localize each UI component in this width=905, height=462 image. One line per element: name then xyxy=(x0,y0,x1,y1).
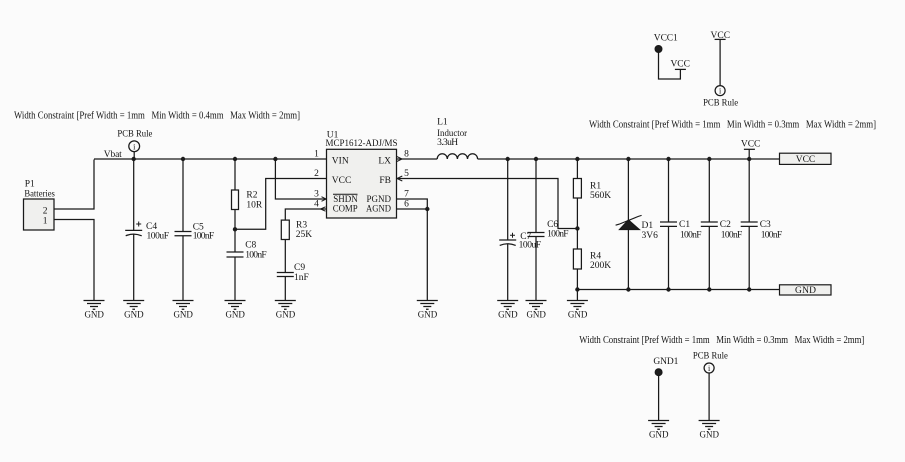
port VCC xyxy=(780,153,832,165)
svg-text:Width Constraint [Pref Width =: Width Constraint [Pref Width = 1mm Min W… xyxy=(589,119,876,130)
svg-text:Batteries: Batteries xyxy=(24,190,55,200)
svg-text:100nF: 100nF xyxy=(245,251,267,261)
ground symbol (C6) xyxy=(526,301,547,320)
capacitor C3 100nF xyxy=(741,220,783,241)
power port VCC (bar, above directive) xyxy=(711,31,731,41)
svg-text:VCC: VCC xyxy=(670,59,690,69)
junction rail/C1 xyxy=(666,157,670,161)
junction bus/C3 xyxy=(747,287,751,291)
port GND xyxy=(780,285,832,296)
svg-text:GND: GND xyxy=(225,310,245,320)
junction Vbat/R2 xyxy=(233,157,237,161)
wire C9 bottom xyxy=(284,277,286,301)
junction Vbat/C5 xyxy=(181,157,185,161)
junction R4/GND bus xyxy=(575,287,579,291)
junction rail/D1 xyxy=(626,157,630,161)
wire VCC bar to directive xyxy=(719,39,721,85)
wire GND1 to ground xyxy=(658,376,660,421)
svg-text:5: 5 xyxy=(404,169,409,179)
svg-text:R2: R2 xyxy=(246,191,257,201)
capacitor C6 100nF xyxy=(528,220,569,240)
svg-text:3V6: 3V6 xyxy=(642,231,659,241)
wire D1 bottom xyxy=(627,230,629,290)
U1 pin 4 number and arrow xyxy=(314,200,325,212)
svg-text:GND: GND xyxy=(173,310,193,320)
svg-text:3: 3 xyxy=(314,190,319,200)
capacitor C7 100uF polarized xyxy=(499,232,541,251)
wire Vbat rail xyxy=(94,158,327,160)
junction rail/C2 xyxy=(707,157,711,161)
wire R1 top xyxy=(576,159,578,179)
svg-text:7: 7 xyxy=(404,190,409,200)
capacitor C1 100nF xyxy=(660,220,702,241)
junction PGND/AGND xyxy=(425,207,429,211)
U1 pin 5 number and arrow xyxy=(397,169,409,181)
ground symbol (R4) xyxy=(567,301,588,320)
wire FB network xyxy=(397,179,578,229)
svg-text:200K: 200K xyxy=(590,261,611,271)
svg-text:PCB Rule: PCB Rule xyxy=(703,99,738,109)
svg-text:GND: GND xyxy=(649,430,669,440)
ground symbol (P1) xyxy=(84,301,105,320)
wire LX to L1 xyxy=(397,158,438,160)
svg-text:VCC: VCC xyxy=(332,176,352,186)
svg-text:C2: C2 xyxy=(720,220,731,230)
wire P1 pin2 to Vbat rail xyxy=(54,160,94,210)
wire C2 top xyxy=(708,159,710,222)
power port GND1 (circle style) xyxy=(653,357,678,376)
svg-text:GND: GND xyxy=(84,310,104,320)
wire C4 bottom xyxy=(133,234,135,300)
wire C5 bottom xyxy=(182,236,184,301)
svg-text:MCP1612-ADJ/MS: MCP1612-ADJ/MS xyxy=(326,139,398,149)
svg-text:100nF: 100nF xyxy=(547,230,569,240)
U1 pin 8 number and arrow xyxy=(397,150,409,162)
junction rail/C6 xyxy=(534,157,538,161)
svg-text:GND1: GND1 xyxy=(653,357,678,367)
wire C7 bottom xyxy=(507,244,509,301)
svg-text:8: 8 xyxy=(404,150,409,160)
svg-text:10R: 10R xyxy=(246,201,263,211)
wire C1 top xyxy=(668,159,670,222)
capacitor C2 100nF xyxy=(701,220,743,241)
svg-text:GND: GND xyxy=(276,310,296,320)
directive PCB Rule (top right) xyxy=(703,86,738,109)
wire C5 top xyxy=(182,159,184,232)
svg-text:100nF: 100nF xyxy=(193,232,215,242)
junction bus/C2 xyxy=(707,287,711,291)
svg-text:C3: C3 xyxy=(760,220,771,230)
wire COMP to R3 xyxy=(285,209,326,220)
svg-text:FB: FB xyxy=(379,176,391,186)
svg-text:PCB Rule: PCB Rule xyxy=(117,130,152,140)
svg-text:LX: LX xyxy=(378,157,391,167)
ground symbol (C4) xyxy=(123,301,144,320)
svg-text:GND: GND xyxy=(526,310,546,320)
ground symbol (C8) xyxy=(225,301,246,320)
svg-text:1nF: 1nF xyxy=(294,273,309,283)
svg-text:GND: GND xyxy=(700,430,720,440)
junction R2/C8/VCC xyxy=(233,227,237,231)
svg-text:L1: L1 xyxy=(437,118,448,128)
wire C6 top xyxy=(535,159,537,233)
svg-text:C4: C4 xyxy=(146,222,157,232)
svg-text:VCC1: VCC1 xyxy=(654,34,678,44)
capacitor C4 100uF polarized xyxy=(125,222,169,242)
capacitor C9 1nF xyxy=(277,263,309,283)
resistor R4 200K xyxy=(573,249,611,271)
junction rail/C3 xyxy=(747,157,751,161)
U1 pin 3 number and arrow xyxy=(314,190,326,202)
svg-text:R1: R1 xyxy=(590,182,601,192)
svg-text:3.3uH: 3.3uH xyxy=(437,138,458,148)
wire VCC1 to VCC bar xyxy=(659,52,681,79)
wire VCC pin feed xyxy=(235,179,327,230)
svg-text:4: 4 xyxy=(314,200,319,210)
resistor R1 560K xyxy=(573,179,611,202)
junction rail/C7 xyxy=(506,157,510,161)
wire PGND xyxy=(397,199,428,209)
svg-text:2: 2 xyxy=(43,207,48,217)
wire C8 bottom xyxy=(234,257,236,301)
svg-text:R4: R4 xyxy=(590,252,601,262)
directive PCB Rule (top left) xyxy=(117,130,152,160)
svg-text:P1: P1 xyxy=(25,180,35,190)
svg-text:GND: GND xyxy=(795,286,816,296)
wire U1 ground drop xyxy=(426,209,428,301)
junction FB divider xyxy=(575,226,579,230)
wire C3 bottom xyxy=(748,226,750,289)
svg-text:GND: GND xyxy=(568,310,588,320)
wire C3 top xyxy=(748,159,750,222)
capacitor C5 100nF xyxy=(175,223,215,242)
svg-text:2: 2 xyxy=(314,169,319,179)
svg-text:VCC: VCC xyxy=(741,140,761,150)
wire C7 top xyxy=(507,159,509,240)
wire C4 top xyxy=(133,159,135,230)
svg-text:GND: GND xyxy=(418,310,438,320)
wire C6 bottom xyxy=(535,237,537,301)
ground symbol (C5) xyxy=(173,301,194,320)
connector P1 Batteries xyxy=(24,180,56,231)
svg-text:PCB Rule: PCB Rule xyxy=(693,352,728,362)
wire R3 to C9 xyxy=(284,240,286,273)
capacitor C8 100nF xyxy=(227,241,267,261)
IC U1 MCP1612-ADJ/MS body xyxy=(326,131,398,219)
wire C2 bottom xyxy=(708,226,710,289)
svg-text:C8: C8 xyxy=(245,241,256,251)
svg-text:100nF: 100nF xyxy=(761,231,783,241)
wire R4 bottom to GND xyxy=(576,269,578,301)
wire R1 to R4 xyxy=(576,198,578,249)
svg-text:COMP: COMP xyxy=(333,205,358,215)
ground symbol (C7) xyxy=(497,301,518,320)
wire R2 bottom to C8 xyxy=(234,210,236,253)
svg-text:VCC: VCC xyxy=(796,155,816,165)
ground symbol (U1) xyxy=(417,301,438,320)
svg-text:C6: C6 xyxy=(547,220,558,230)
wire GND bus xyxy=(577,289,779,291)
svg-text:GND: GND xyxy=(124,310,144,320)
junction bus/D1 xyxy=(626,287,630,291)
ground symbol (PCB Rule) xyxy=(699,421,720,440)
svg-text:25K: 25K xyxy=(296,230,313,240)
svg-text:100uF: 100uF xyxy=(147,232,170,242)
wire R2 top xyxy=(234,159,236,190)
svg-text:560K: 560K xyxy=(590,191,611,201)
svg-text:R3: R3 xyxy=(296,221,307,231)
junction rail/R1 xyxy=(575,157,579,161)
junction Vbat/C4 xyxy=(132,157,136,161)
wire D1 top xyxy=(627,159,629,220)
power port VCC (bar above rail) xyxy=(741,140,761,160)
resistor R2 10R xyxy=(232,190,263,211)
power port VCC (bar, top-right tie) xyxy=(670,59,690,69)
svg-text:D1: D1 xyxy=(642,221,654,231)
svg-text:Width Constraint [Pref Width =: Width Constraint [Pref Width = 1mm Min W… xyxy=(14,111,300,122)
junction Vbat/SHDN xyxy=(273,157,277,161)
junction bus/C1 xyxy=(666,287,670,291)
wire directive to ground xyxy=(708,373,710,421)
svg-text:100nF: 100nF xyxy=(680,231,702,241)
resistor R3 25K xyxy=(281,220,312,240)
svg-text:Width Constraint [Pref Width =: Width Constraint [Pref Width = 1mm Min W… xyxy=(579,335,864,346)
wire P1 pin1 to GND xyxy=(54,220,94,301)
svg-text:1: 1 xyxy=(314,150,319,160)
wire VCC output rail xyxy=(478,158,780,160)
svg-text:100uF: 100uF xyxy=(519,241,542,251)
inductor L1 3.3uH xyxy=(437,118,478,160)
diode D1 3V6 zener xyxy=(616,215,659,241)
svg-text:6: 6 xyxy=(404,200,409,210)
ground symbol (C9) xyxy=(275,301,296,320)
wire SHDN tie to Vbat xyxy=(275,159,326,199)
wire C1 bottom xyxy=(668,226,670,289)
svg-text:SHDN: SHDN xyxy=(333,195,358,205)
svg-text:VIN: VIN xyxy=(332,157,349,167)
svg-text:C1: C1 xyxy=(679,220,690,230)
svg-text:100nF: 100nF xyxy=(721,231,743,241)
ground symbol (GND1) xyxy=(648,421,669,440)
svg-text:PGND: PGND xyxy=(367,195,392,205)
wire AGND xyxy=(397,208,428,210)
svg-text:AGND: AGND xyxy=(366,205,391,215)
directive PCB Rule (bottom right) xyxy=(693,352,728,374)
svg-text:GND: GND xyxy=(498,310,518,320)
svg-text:1: 1 xyxy=(43,217,48,227)
power port VCC1 (circle style) xyxy=(654,34,678,53)
svg-text:C9: C9 xyxy=(294,263,305,273)
